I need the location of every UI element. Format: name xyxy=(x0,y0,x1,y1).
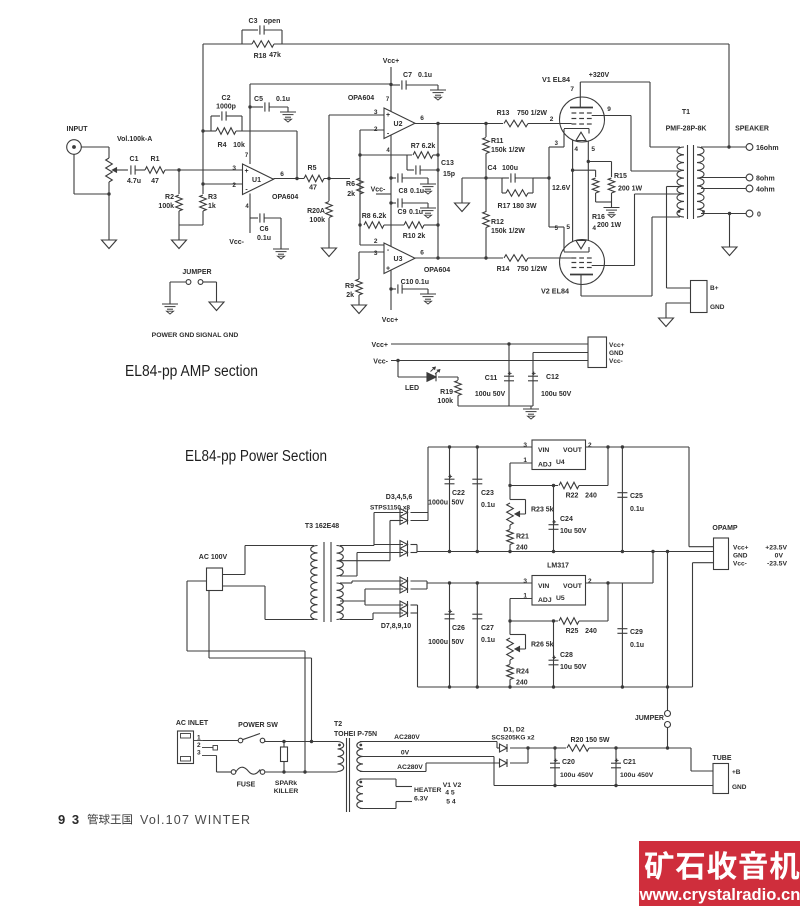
svg-text:1k: 1k xyxy=(208,203,216,210)
capacitor C4 100u xyxy=(462,177,502,179)
wire plate V2 to primary bottom xyxy=(581,295,652,297)
svg-text:2k: 2k xyxy=(347,191,355,198)
svg-text:www.crystalradio.cn: www.crystalradio.cn xyxy=(639,885,801,904)
svg-text:ADJ: ADJ xyxy=(538,597,552,604)
svg-text:VIN: VIN xyxy=(538,447,549,454)
svg-text:C25: C25 xyxy=(630,493,643,500)
speaker terminal 16ohm xyxy=(701,146,746,148)
wire Vcc+ drop xyxy=(390,67,392,112)
wire R20A to ground xyxy=(328,218,330,248)
capacitor C12 plates xyxy=(528,375,538,377)
wire screen2 to tap xyxy=(634,194,636,266)
svg-text:C9: C9 xyxy=(398,209,407,216)
ground below C4 stub xyxy=(455,203,470,212)
wire +B into tube box xyxy=(690,748,692,771)
svg-text:POWER GND: POWER GND xyxy=(152,332,195,339)
V2 plate bar xyxy=(570,274,593,276)
V2 grid dashes xyxy=(572,262,577,264)
ground for C9 xyxy=(427,203,429,208)
svg-text:240: 240 xyxy=(516,680,528,687)
svg-text:C22: C22 xyxy=(452,490,465,497)
svg-text:100u 50V: 100u 50V xyxy=(475,391,506,398)
svg-text:50V: 50V xyxy=(452,639,465,646)
cathode stub V2 pin5 xyxy=(549,226,564,228)
svg-text:100u 450V: 100u 450V xyxy=(620,772,654,779)
svg-text:D7,8,9,10: D7,8,9,10 xyxy=(381,623,411,630)
U5 VIN rail xyxy=(427,582,532,584)
wire U2 pin2 xyxy=(360,129,384,131)
wire B+ center tap xyxy=(667,186,681,188)
svg-text:R15: R15 xyxy=(614,173,627,180)
U5 VOUT wire xyxy=(586,582,654,584)
svg-text:9 3: 9 3 xyxy=(58,812,81,827)
wire pot bottom to ground xyxy=(108,182,110,240)
svg-text:B+: B+ xyxy=(710,285,719,292)
resistor R9 2k xyxy=(359,251,384,253)
svg-text:C23: C23 xyxy=(481,490,494,497)
svg-text:R26 5k: R26 5k xyxy=(531,642,554,649)
wire B+ into box xyxy=(667,287,691,289)
op-amp U3 OPA604 xyxy=(384,243,415,274)
resistor R6 2k xyxy=(357,178,364,194)
svg-text:V1 EL84: V1 EL84 xyxy=(542,75,570,84)
svg-text:OPAMP: OPAMP xyxy=(712,525,737,532)
svg-text:+320V: +320V xyxy=(589,72,610,79)
wires secondary to pair4 xyxy=(364,601,366,605)
V1 grid dashes xyxy=(572,112,577,114)
ground for C7 xyxy=(437,85,439,90)
svg-text:R12: R12 xyxy=(491,219,504,226)
svg-text:FUSE: FUSE xyxy=(237,782,256,789)
svg-text:ADJ: ADJ xyxy=(538,462,552,469)
svg-text:100u 50V: 100u 50V xyxy=(541,391,572,398)
svg-text:GND: GND xyxy=(710,304,725,311)
svg-text:INPUT: INPUT xyxy=(67,126,89,133)
svg-text:0.1u: 0.1u xyxy=(276,96,290,103)
svg-text:R22: R22 xyxy=(566,493,579,500)
V1 screen pin9 lead xyxy=(592,115,631,117)
diode D9 xyxy=(400,601,408,609)
capacitor C1 4.7u xyxy=(130,165,132,174)
svg-text:1000u: 1000u xyxy=(428,639,448,646)
svg-text:VIN: VIN xyxy=(538,583,549,590)
resistor R25 240 xyxy=(508,619,511,622)
svg-text:2: 2 xyxy=(588,442,592,449)
ground for C8 xyxy=(427,178,429,184)
wires heater taps xyxy=(360,778,396,780)
svg-text:47k: 47k xyxy=(269,52,281,59)
capacitor C11 plates xyxy=(504,375,514,377)
wires secondary to pair1 xyxy=(340,545,374,547)
resistor R1 47 xyxy=(145,167,165,174)
ground below R9 xyxy=(352,305,367,314)
wire U5 VOUT to R25 xyxy=(607,583,609,621)
wire jumper right to signal gnd xyxy=(203,281,217,283)
svg-text:Vcc-: Vcc- xyxy=(373,359,388,366)
wire U3 output xyxy=(415,257,503,259)
svg-text:T1: T1 xyxy=(682,109,690,116)
capacitor C2 1000p xyxy=(210,116,212,131)
capacitor C10 0.1u xyxy=(391,288,396,290)
capacitor C7 0.1u xyxy=(391,84,400,86)
capacitor C13 15p xyxy=(406,155,408,170)
svg-text:KILLER: KILLER xyxy=(274,788,299,795)
wire AC280V top to D1 xyxy=(360,741,497,743)
ground below B+ box xyxy=(659,318,674,327)
V2 screen pin9 lead xyxy=(592,265,635,267)
wire AC280V bottom to D2 xyxy=(360,771,426,773)
svg-text:C26: C26 xyxy=(452,625,465,632)
wire Vcc+ rail xyxy=(391,343,588,345)
wire wiper to C1 xyxy=(116,169,128,171)
speaker terminal 8ohm xyxy=(701,177,746,179)
svg-text:TOHEI P-75N: TOHEI P-75N xyxy=(334,731,377,738)
svg-text:47: 47 xyxy=(151,178,159,185)
svg-text:4 5: 4 5 xyxy=(445,790,455,797)
svg-text:OPA604: OPA604 xyxy=(272,194,298,201)
jumper terminals xyxy=(186,280,191,285)
svg-text:0V: 0V xyxy=(401,750,410,757)
svg-text:R2: R2 xyxy=(165,194,174,201)
svg-text:750 1/2W: 750 1/2W xyxy=(517,110,547,117)
ground below vcc block xyxy=(530,406,532,409)
node U1 pin2 feedback xyxy=(202,44,204,194)
wire GND rail xyxy=(533,352,588,354)
feedback column right xyxy=(437,124,439,259)
wires secondary to pair3 xyxy=(340,582,352,584)
U5 ADJ wire xyxy=(510,598,532,600)
wire U3 pin2 xyxy=(359,225,361,245)
wire plate V1 to primary top xyxy=(650,146,680,148)
svg-text:-: - xyxy=(387,247,390,254)
svg-text:Vcc-: Vcc- xyxy=(733,561,747,568)
svg-text:R24: R24 xyxy=(516,669,529,676)
wire jumper left to power gnd xyxy=(170,281,186,283)
svg-text:2: 2 xyxy=(374,238,378,245)
svg-text:5: 5 xyxy=(591,146,595,153)
capacitor C24 10u 50V xyxy=(552,484,555,487)
svg-text:R6: R6 xyxy=(346,181,355,188)
capacitor C27 0.1u xyxy=(476,583,478,687)
svg-text:open: open xyxy=(264,18,281,25)
resistor R16 200 1W xyxy=(592,178,599,193)
svg-text:Vcc-: Vcc- xyxy=(371,187,386,194)
wire R4 to U1 output xyxy=(296,131,298,179)
resistor R13 750 1/2W xyxy=(504,120,528,127)
T3 secondary top winding xyxy=(337,546,344,576)
V1 plate bar xyxy=(570,107,593,109)
svg-text:0.1u: 0.1u xyxy=(481,637,495,644)
wire heater tap left xyxy=(571,169,574,172)
T2 phase dot heater xyxy=(359,781,362,784)
wire R1 to U1 pin3 xyxy=(165,169,242,171)
wire R3 bottom joins R2 xyxy=(202,211,204,225)
svg-text:47: 47 xyxy=(309,185,317,192)
svg-text:C3: C3 xyxy=(249,18,258,25)
wire R2 bottom to ground xyxy=(178,211,180,240)
svg-text:POWER SW: POWER SW xyxy=(238,722,278,729)
svg-text:R4: R4 xyxy=(218,142,227,149)
svg-text:3: 3 xyxy=(232,165,236,172)
wire R15 R16 bottoms xyxy=(595,193,597,202)
svg-text:Vol.107 WINTER: Vol.107 WINTER xyxy=(140,813,251,827)
T2 primary winding xyxy=(338,742,344,772)
svg-text:100k: 100k xyxy=(437,398,453,405)
svg-text:Vol.100k-A: Vol.100k-A xyxy=(117,136,152,143)
svg-text:+: + xyxy=(386,266,390,273)
svg-text:C24: C24 xyxy=(560,516,573,523)
svg-text:0.1u: 0.1u xyxy=(418,72,432,79)
svg-text:OPA604: OPA604 xyxy=(348,95,374,102)
svg-text:5: 5 xyxy=(566,224,570,231)
svg-text:PMF-28P-8K: PMF-28P-8K xyxy=(666,126,707,133)
svg-text:100u 450V: 100u 450V xyxy=(560,772,594,779)
V2 beam triangle xyxy=(576,241,586,249)
capacitor C6 0.1u xyxy=(249,194,251,234)
resistor R24 240 xyxy=(509,660,511,664)
resistor R18 47k xyxy=(252,41,274,48)
svg-text:V1 V2: V1 V2 xyxy=(443,782,462,789)
T2 phase dot primary xyxy=(338,744,341,747)
svg-text:240: 240 xyxy=(516,545,528,552)
supply rail U1-U2 xyxy=(250,83,391,85)
svg-text:100k: 100k xyxy=(309,217,325,224)
svg-text:C27: C27 xyxy=(481,625,494,632)
cathode bus 12.6V xyxy=(548,147,550,227)
svg-text:C10: C10 xyxy=(401,279,414,286)
wire R20 to tube box xyxy=(589,747,691,749)
U2 U3 negative rail xyxy=(390,135,392,247)
wires pair2 outputs xyxy=(411,544,418,546)
footer CJK magazine name xyxy=(87,814,98,825)
capacitor C23 0.1u xyxy=(476,447,478,552)
spark killer xyxy=(283,742,285,748)
Vcc- bottom bus xyxy=(418,686,693,688)
svg-text:VOUT: VOUT xyxy=(563,447,583,454)
watermark CJK title xyxy=(645,851,674,880)
svg-text:+: + xyxy=(386,112,390,119)
svg-text:6: 6 xyxy=(280,171,284,178)
svg-text:3: 3 xyxy=(197,750,201,757)
T1 phase dots xyxy=(678,210,681,213)
svg-text:U5: U5 xyxy=(556,595,565,602)
svg-text:3: 3 xyxy=(555,141,559,147)
resistor R10 2k xyxy=(384,224,404,226)
signal ground symbol xyxy=(209,302,224,311)
svg-text:5 4: 5 4 xyxy=(446,799,456,806)
svg-text:LED: LED xyxy=(405,385,419,392)
wire 0 to ground xyxy=(728,212,731,215)
resistor R15 200 1W xyxy=(608,178,615,193)
svg-text:0.1u: 0.1u xyxy=(630,506,644,513)
LED xyxy=(427,373,436,382)
wire 0V tap xyxy=(360,756,494,758)
svg-text:R17 180 3W: R17 180 3W xyxy=(498,203,537,210)
wire jack to pot xyxy=(81,146,109,148)
global feedback wire top xyxy=(203,43,252,45)
connector Vcc box xyxy=(588,337,607,368)
svg-text:U2: U2 xyxy=(394,121,403,128)
svg-text:U1: U1 xyxy=(252,177,261,184)
node chain pin2 column xyxy=(359,130,361,225)
svg-text:C8: C8 xyxy=(399,188,408,195)
wires AC box to mains below xyxy=(187,580,207,582)
wire VOUT to R22 xyxy=(607,447,609,486)
capacitor C11 100u 50V xyxy=(508,344,510,406)
svg-text:16ohm: 16ohm xyxy=(756,145,779,152)
svg-text:C20: C20 xyxy=(562,759,575,766)
pot wiper arrow xyxy=(113,168,118,172)
svg-text:12.6V: 12.6V xyxy=(552,185,571,192)
svg-text:3: 3 xyxy=(523,442,527,449)
svg-text:4.7u: 4.7u xyxy=(127,178,141,185)
cathode stub V1 pin3 xyxy=(549,146,564,148)
svg-text:7: 7 xyxy=(570,86,574,93)
svg-text:4: 4 xyxy=(592,225,596,232)
svg-text:C2: C2 xyxy=(222,95,231,102)
svg-text:+23.5V: +23.5V xyxy=(765,545,787,552)
watermark red box xyxy=(639,841,800,906)
wire pair1 to VIN rail xyxy=(427,447,429,521)
svg-text:C13: C13 xyxy=(441,160,454,167)
wires AC box to T3 primary xyxy=(223,574,246,576)
svg-text:0.1u: 0.1u xyxy=(409,209,423,216)
svg-text:50V: 50V xyxy=(452,500,465,507)
wire bus to opamp Vcc- xyxy=(692,563,694,687)
svg-text:R1: R1 xyxy=(151,156,160,163)
T3 secondary bottom winding xyxy=(337,583,344,619)
svg-text:Vcc-: Vcc- xyxy=(229,239,244,246)
svg-text:OPA604: OPA604 xyxy=(424,267,450,274)
svg-text:U4: U4 xyxy=(556,459,565,466)
svg-text:-23.5V: -23.5V xyxy=(767,561,787,568)
svg-text:R21: R21 xyxy=(516,534,529,541)
wire +320V rail xyxy=(580,81,650,83)
svg-text:6: 6 xyxy=(420,250,424,257)
svg-text:C6: C6 xyxy=(260,226,269,233)
capacitor C5 0.1u xyxy=(250,106,263,108)
T3 primary winding xyxy=(311,546,318,620)
svg-text:100k: 100k xyxy=(158,203,174,210)
T1 core xyxy=(687,145,689,219)
U4 VOUT wire xyxy=(586,446,690,448)
V1 plate pin7 lead xyxy=(579,82,581,108)
svg-text:Vcc+: Vcc+ xyxy=(383,58,400,65)
wire U4 VOUT to opamp Vcc+ xyxy=(688,447,690,547)
resistor R20A 100k xyxy=(328,179,330,202)
svg-text:+B: +B xyxy=(732,769,741,776)
T2 phase dot secondary xyxy=(359,744,362,747)
svg-text:240: 240 xyxy=(585,628,597,635)
capacitor C3 open xyxy=(241,30,243,44)
svg-text:AC280V: AC280V xyxy=(397,764,423,771)
diode D1 xyxy=(500,744,508,752)
svg-text:SCS205KG x2: SCS205KG x2 xyxy=(492,735,535,742)
jumper2 wire from GND rail xyxy=(667,552,669,711)
wire D2 joins D1 xyxy=(510,762,528,764)
wire U2 output xyxy=(415,123,503,125)
wire pin2 stub xyxy=(203,183,242,185)
wire D1 output to R20 xyxy=(510,747,566,749)
connector AC 100V box xyxy=(207,568,223,591)
capacitor C12 100u 50V xyxy=(532,353,534,407)
svg-text:C1: C1 xyxy=(130,156,139,163)
resistor R19 100k xyxy=(457,377,459,380)
svg-text:R13: R13 xyxy=(497,110,510,117)
T1 secondary winding xyxy=(697,147,704,217)
wire fuse to T2 xyxy=(265,771,338,773)
svg-text:8ohm: 8ohm xyxy=(756,176,775,183)
svg-text:100u: 100u xyxy=(502,165,518,172)
capacitor C21 100u 450V xyxy=(615,748,617,786)
diode D2 xyxy=(500,759,508,767)
T2 secondary AC280V winding xyxy=(357,742,363,772)
svg-text:JUMPER: JUMPER xyxy=(182,269,211,276)
svg-text:4ohm: 4ohm xyxy=(756,187,775,194)
svg-text:D1, D2: D1, D2 xyxy=(503,727,524,734)
svg-text:C7: C7 xyxy=(403,72,412,79)
svg-text:VOUT: VOUT xyxy=(563,583,583,590)
svg-text:T2: T2 xyxy=(334,721,342,728)
svg-text:4: 4 xyxy=(245,204,249,210)
svg-text:R18: R18 xyxy=(254,53,267,60)
svg-text:150k 1/2W: 150k 1/2W xyxy=(491,147,525,154)
inlet pin2 tab xyxy=(202,747,213,749)
wires pair3 outputs xyxy=(411,580,428,582)
svg-text:GND: GND xyxy=(733,553,748,560)
trimmer R26 5k xyxy=(507,638,514,660)
wire jack ground leg xyxy=(73,154,75,194)
svg-text:7: 7 xyxy=(386,97,390,103)
resistor R2 100k xyxy=(178,170,180,194)
svg-text:T3 162E48: T3 162E48 xyxy=(305,523,339,530)
wire inlet pin1 to switch xyxy=(194,740,204,742)
speaker terminal 0 xyxy=(701,213,746,215)
svg-text:TUBE: TUBE xyxy=(712,755,731,762)
svg-text:4: 4 xyxy=(574,146,578,153)
ground for C6 xyxy=(280,218,282,249)
svg-text:SPARk: SPARk xyxy=(275,780,297,787)
svg-text:R7 6.2k: R7 6.2k xyxy=(411,143,436,150)
svg-text:Vcc+: Vcc+ xyxy=(733,545,749,552)
wires pair1 outputs xyxy=(411,512,429,514)
diode D3 xyxy=(400,509,408,517)
op-amp U2 OPA604 xyxy=(384,108,415,139)
wire LED to R19 xyxy=(438,376,458,378)
T2 core xyxy=(346,738,348,812)
jumper2 wire to +B line xyxy=(667,728,669,749)
svg-text:V2 EL84: V2 EL84 xyxy=(541,287,569,296)
svg-text:C28: C28 xyxy=(560,652,573,659)
wires secondary to pair2 xyxy=(374,544,403,546)
diode D10 xyxy=(400,609,408,617)
wire switch to T2 xyxy=(264,741,266,742)
connector B+ GND box xyxy=(691,281,708,313)
svg-text:3: 3 xyxy=(523,578,527,585)
connector AC inlet xyxy=(178,731,194,764)
capacitor C28 10u 50V xyxy=(552,619,555,622)
svg-text:6.3V: 6.3V xyxy=(414,796,428,803)
svg-text:10u 50V: 10u 50V xyxy=(560,664,587,671)
ground below pot xyxy=(102,240,117,249)
resistor R7 6.2k xyxy=(360,154,412,156)
wires pair4 outputs xyxy=(411,604,418,606)
wire R5 to node xyxy=(324,178,350,180)
svg-text:HEATER: HEATER xyxy=(414,787,442,794)
U3 positive pin down xyxy=(390,270,392,311)
svg-text:R10 2k: R10 2k xyxy=(403,233,426,240)
wire R11 to cathode node xyxy=(485,154,487,213)
